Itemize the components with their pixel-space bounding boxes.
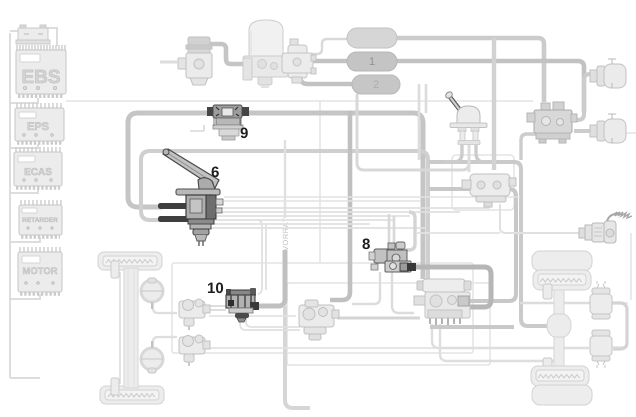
spring brake chamber RT1 — [590, 59, 626, 88]
pipe relay valve to lower spring brake chamber — [574, 129, 596, 133]
coiled cable — [613, 212, 632, 218]
svg-text:RETARDER: RETARDER — [22, 217, 58, 224]
pipe P2 inner frame (valve6 second circuit along y151, down x436) — [141, 151, 428, 279]
wire down to front frame — [319, 101, 321, 263]
pipe rear ABS valve to modulator — [337, 317, 420, 320]
svg-text:VORRAT: VORRAT — [281, 217, 290, 251]
pipe hand brake left port — [445, 145, 462, 162]
ECU EPS U2 — [15, 103, 64, 143]
pipe valve 8 output to modulator — [392, 272, 414, 313]
frame F2 inner — [287, 283, 490, 365]
wheel front-left (bottom tire) — [100, 386, 164, 404]
rear axle shaft — [554, 290, 564, 367]
ABS relay valve rear (middle) — [299, 300, 339, 340]
pipe VORRAT supply to valve 10 — [256, 250, 285, 306]
pipe valve 10 to ABS valves (thin) — [209, 306, 226, 310]
pipe foot brake valve upper port lines (thin) — [224, 197, 520, 201]
pipe 4-circuit valve to tank 1 — [307, 59, 348, 64]
wire battery right to EBS — [46, 28, 57, 46]
pipe VORRAT vertical light upper part — [284, 140, 286, 218]
pipe trailer-control to rear axle modulator — [429, 189, 516, 301]
wheel front-left (top tire) — [98, 252, 162, 270]
pipe valve 8 to coupling line — [417, 232, 500, 234]
trailer control valve TCV — [462, 174, 516, 207]
relay valve RV — [527, 102, 577, 143]
trailer coupling head TK — [579, 212, 632, 243]
ECU MOTOR U5 — [18, 247, 62, 294]
frame around trailer control valve — [452, 155, 514, 210]
valve 8 — [369, 242, 416, 272]
wheel rear (bottom pair tire 2) — [532, 385, 592, 405]
pipe hand brake centre port down — [468, 145, 471, 172]
svg-text:1: 1 — [369, 56, 375, 68]
pipe modulator outputs right — [414, 267, 491, 307]
hand brake valve HB — [444, 91, 487, 145]
pipe down to valve 8 (pair) — [389, 214, 394, 245]
svg-text:9: 9 — [240, 125, 248, 142]
SECTION: thin background frames — [66, 101, 636, 365]
pipe modulator bottom outputs to rear chambers — [432, 324, 589, 361]
air tank A — [347, 28, 397, 48]
hub fitting front top — [111, 261, 119, 278]
pipe front ABS lines (thin) — [209, 316, 473, 348]
wire EPS bottom — [10, 144, 38, 148]
pipe 4-circuit valve to tank 2 — [300, 76, 353, 84]
svg-text:2: 2 — [373, 79, 379, 91]
wheel rear (bottom pair tire 1 with tread) — [531, 366, 589, 386]
pipe relay valve to top spring brake chamber — [574, 74, 598, 120]
pipe chamber loop right — [612, 303, 627, 349]
svg-text:EPS: EPS — [27, 121, 49, 133]
pipe rear brake chamber connections — [520, 302, 592, 304]
ECU ECAS U3 — [14, 147, 62, 188]
pipe trailer control valve to coupling — [500, 204, 579, 233]
SECTION: left ECU column wires — [10, 28, 57, 378]
pipe fan line down to valve 10 — [257, 220, 266, 294]
hub fitting rear top — [543, 284, 552, 299]
wheel rear (top pair tire 2 with tread) — [533, 270, 591, 290]
ECU EBS U1 — [16, 45, 66, 96]
svg-text:10: 10 — [207, 280, 224, 297]
wire EBS to relay valve — [66, 100, 533, 102]
wire ECAS bottom — [10, 188, 38, 193]
pipe tank outputs down (light pair) — [419, 84, 426, 160]
svg-text:8: 8 — [362, 236, 370, 253]
pipe tank A to relay valve (top right) — [397, 38, 544, 102]
pipe relay valve down legs — [521, 134, 536, 160]
differential — [547, 314, 571, 337]
pipe hand brake valve to rear down-line — [429, 162, 553, 326]
valve 10 — [226, 288, 259, 322]
air dryer AD — [243, 20, 288, 87]
rear brake chamber 2 — [590, 330, 612, 368]
pipe valve10 bottom outputs (thin) — [240, 317, 300, 330]
four-circuit protection valve V4 — [282, 39, 316, 83]
pipe VORRAT lower continuation — [285, 306, 310, 408]
rear brake chamber 1 — [590, 281, 612, 319]
compressor CP — [160, 37, 212, 85]
wire MOTOR bottom — [10, 294, 40, 299]
air tank 1 — [347, 52, 397, 71]
brake chamber front-2 — [141, 341, 163, 373]
hub fitting rear bottom — [543, 358, 552, 373]
svg-text:EBS: EBS — [21, 67, 60, 88]
pipe under modulator to differential — [430, 325, 514, 329]
pipe foot brake valve fan lines (thin) — [198, 208, 490, 228]
ABS valve front-1 — [179, 299, 210, 330]
air tank 2 — [352, 75, 400, 94]
foot brake valve 6 — [163, 149, 223, 246]
brake chamber front-1 — [141, 278, 163, 309]
svg-text:MOTOR: MOTOR — [22, 266, 57, 277]
EBS axle modulator AM — [414, 279, 471, 325]
pressure limiter valve 9 — [190, 105, 249, 140]
pipe tank 1 to right side down — [397, 61, 584, 112]
frame F1 around front brake group — [172, 263, 473, 353]
pipe supply x348 down to rear ABS valve — [330, 111, 350, 300]
hub fitting front bottom — [111, 378, 119, 395]
ECU RETARDER U4 — [19, 200, 62, 237]
battery B1 — [16, 25, 50, 44]
pipe P1 foot-brake supply frame (valve6 left, up, along y113 through valve 9, down x427 to modulator) — [128, 113, 423, 279]
wire battery left — [10, 30, 20, 32]
ABS valve front-2 — [179, 335, 210, 366]
spring brake chamber RT2 — [590, 114, 626, 143]
wire RETARDER bottom — [10, 237, 40, 242]
pipe brake chamber FL to ABS valve — [153, 303, 177, 313]
dark hose lower — [158, 216, 192, 222]
pipe valve 8 output down — [352, 272, 380, 304]
svg-text:6: 6 — [211, 164, 219, 181]
wire left bus — [9, 33, 11, 378]
dark hose upper — [158, 203, 192, 209]
pipe hand brake right port — [476, 145, 492, 162]
wheel rear (top pair tire 1) — [532, 251, 592, 271]
wire chamber lines right — [612, 133, 636, 347]
wire bus bottom end — [10, 377, 40, 379]
pipe compressor to air dryer — [209, 44, 244, 64]
pipe supply branch to trailer control valve — [492, 38, 496, 170]
pipe brake chamber FL2 to ABS valve — [153, 337, 177, 347]
front axle beam — [120, 268, 138, 388]
pipe dryer to tank A (thin) — [307, 39, 348, 54]
wire EBS bottom — [10, 98, 38, 103]
svg-text:ECAS: ECAS — [24, 167, 52, 178]
pipe valve 8 curved top feed — [404, 212, 415, 250]
pipe tank 2 to hand brake valve — [357, 94, 469, 170]
wire right frame to couplings — [630, 233, 632, 300]
